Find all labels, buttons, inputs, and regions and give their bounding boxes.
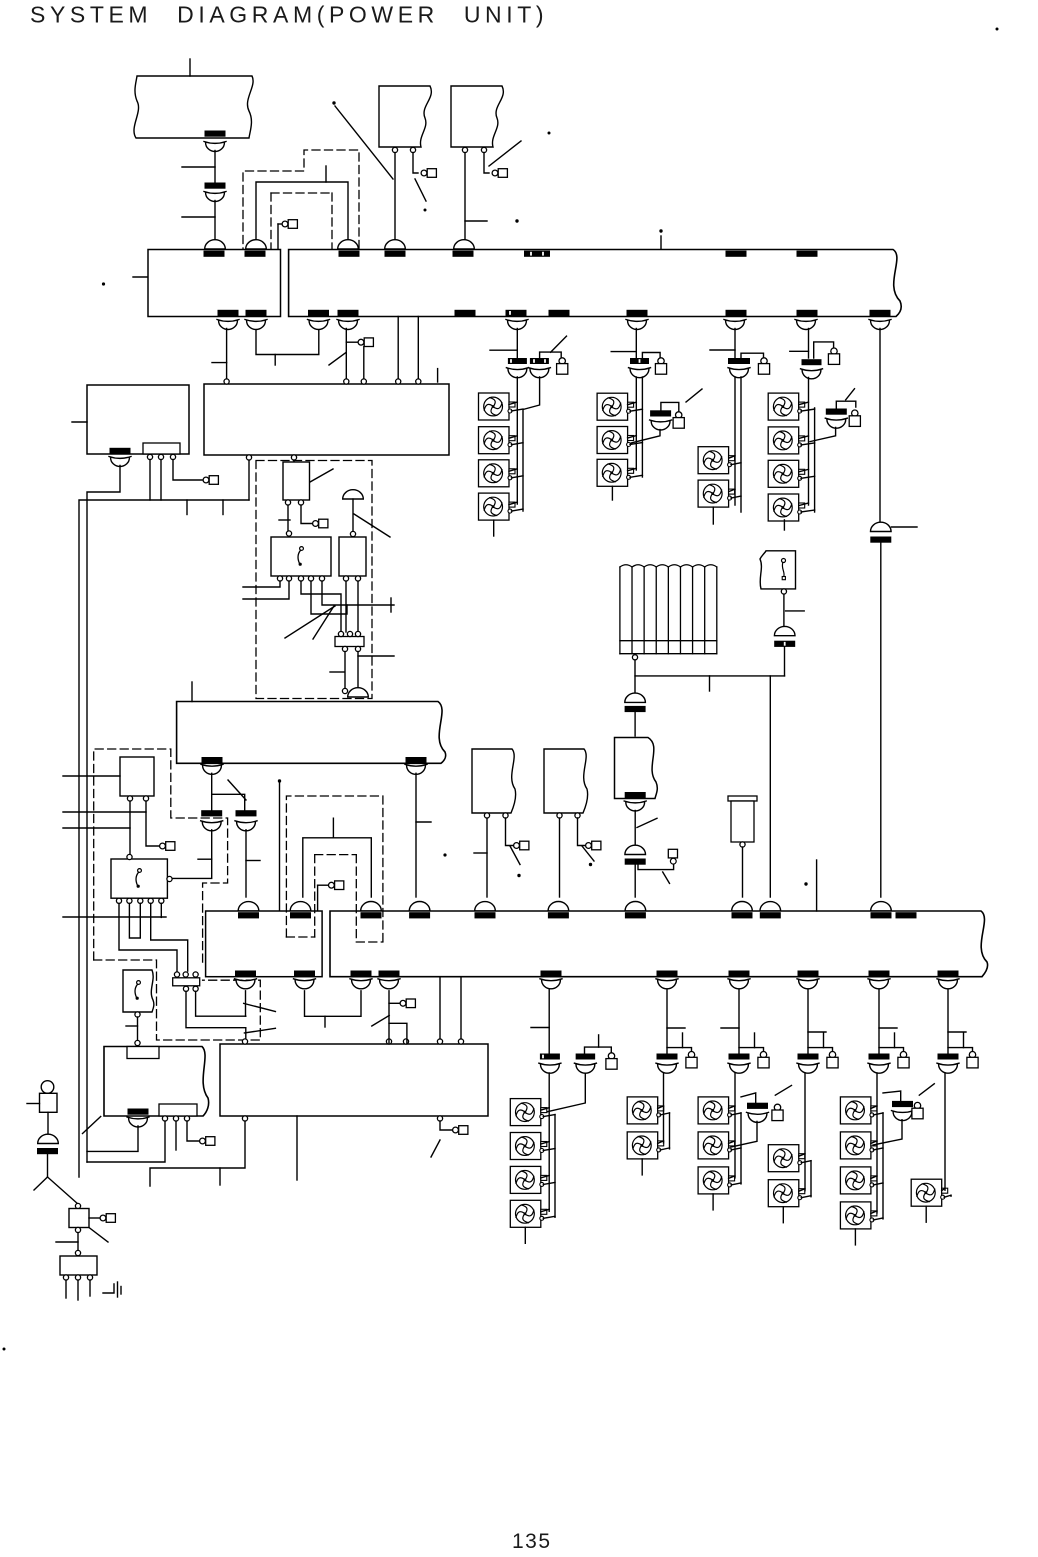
fan bus wire: [882, 1113, 884, 1219]
leader line: [329, 353, 346, 366]
fan lead: [873, 1148, 883, 1150]
connector CN144 bar: [236, 810, 257, 816]
connector plug: [748, 1114, 767, 1123]
fan motor: [840, 1202, 877, 1229]
stub: [709, 676, 711, 691]
terminal block: [159, 1104, 197, 1116]
wire branch: [389, 1002, 400, 1004]
connector CN235 plug: [870, 980, 889, 989]
wire: [516, 329, 518, 359]
wire: [635, 660, 785, 676]
pin: [298, 576, 303, 581]
fan motor: [597, 427, 634, 454]
fan motor: [768, 427, 805, 454]
fan lead: [801, 1196, 811, 1198]
pin: [342, 646, 347, 651]
connector CN401 bar: [625, 706, 646, 712]
wire: [301, 581, 341, 632]
wire stub above T901: [189, 59, 191, 76]
speck: [517, 874, 520, 877]
wire branch: [883, 1091, 901, 1101]
pin: [410, 147, 415, 152]
fan bus wire: [808, 378, 810, 506]
connector CN236 bar: [938, 971, 959, 977]
connector CN151 bar: [128, 1109, 149, 1115]
wire: [742, 847, 744, 897]
fan motor: [768, 460, 805, 487]
wire: [635, 329, 637, 359]
connector CN102 bar: [245, 251, 266, 257]
pin: [75, 1275, 80, 1280]
wire: [506, 818, 514, 846]
pin: [75, 1227, 80, 1232]
wire: [439, 977, 441, 1039]
connector CN202 socket: [290, 902, 311, 911]
leader line: [431, 1140, 440, 1157]
fan lead: [871, 1211, 877, 1214]
leader line: [335, 106, 393, 179]
relay RY902: [339, 537, 366, 576]
stub: [332, 818, 334, 838]
connector CN222 plug: [295, 980, 314, 989]
connector CN206 bar: [548, 912, 569, 918]
wire: [389, 1023, 407, 1043]
connector CN231 plug: [542, 980, 561, 989]
system control board: [204, 384, 449, 455]
connector CN305 plug: [802, 370, 821, 379]
fan motor: [479, 393, 516, 420]
connector CN112 bar: [246, 310, 267, 316]
wire: [634, 676, 636, 693]
wire stub: [325, 166, 327, 182]
fan lead: [799, 469, 809, 472]
video power board: [220, 1044, 488, 1116]
fan lead: [799, 436, 809, 439]
connector CN205 socket: [475, 902, 496, 911]
wire branch: [661, 402, 679, 411]
connector CN111 plug: [219, 321, 238, 330]
wire: [129, 801, 131, 857]
plug P911: [668, 849, 677, 858]
wire: [546, 1074, 585, 1112]
fan lead: [541, 1108, 549, 1111]
fan bus wire: [944, 1073, 946, 1190]
fan bus wire: [635, 377, 637, 470]
fuse holder: [774, 1104, 780, 1110]
speck: [278, 779, 281, 782]
connector bar: [938, 1054, 959, 1060]
connector CN236 plug: [939, 980, 958, 989]
degauss coil (torn edge): [615, 738, 658, 799]
connector CN906 socket: [385, 240, 406, 249]
pin: [224, 379, 229, 384]
leader line: [510, 846, 520, 865]
connector CN234 bar: [798, 971, 819, 977]
fan bus wire: [734, 377, 736, 505]
fan lead: [801, 510, 815, 512]
wire: [279, 781, 281, 910]
fuse holder: [914, 1102, 920, 1108]
connector bar: [892, 1101, 913, 1107]
fan motor: [911, 1179, 948, 1206]
plug P909: [453, 1127, 459, 1133]
connector CN304 plug: [730, 369, 749, 378]
connector CN142 plug: [407, 766, 426, 775]
connector CN501 bar: [540, 1054, 560, 1060]
wire tick: [198, 858, 212, 860]
speck: [424, 209, 427, 212]
wire: [119, 903, 177, 971]
connector CN208 socket: [732, 901, 753, 910]
speck: [443, 853, 446, 856]
pin: [347, 631, 352, 636]
wire: [212, 773, 245, 810]
fan bus wire: [663, 1073, 665, 1143]
fan lead: [729, 489, 735, 492]
stub: [963, 1033, 965, 1048]
pin: [392, 147, 397, 152]
wire: [150, 1121, 245, 1186]
connector CN223 bar: [351, 971, 372, 977]
plug P912: [514, 843, 520, 849]
wire: [394, 153, 396, 240]
fan lead: [871, 1141, 877, 1144]
fan motor: [510, 1133, 547, 1160]
leader line: [582, 846, 594, 861]
fan bus wire: [740, 377, 742, 512]
fan lead: [799, 503, 809, 506]
wire: [214, 151, 216, 183]
wire: [129, 903, 140, 938]
fan lead: [541, 1175, 549, 1178]
connector CN121 plug: [871, 321, 890, 330]
fan lead: [660, 1148, 669, 1150]
connector CN121 bar: [870, 310, 891, 316]
stub: [682, 1033, 684, 1048]
pin: [75, 1250, 80, 1255]
fuse holder F301: [559, 358, 565, 364]
stub: [437, 369, 439, 382]
wire: [245, 991, 247, 1016]
wire: [464, 153, 466, 240]
connector CN904 socket: [246, 240, 267, 249]
connector bar: [869, 1054, 890, 1060]
fan lead: [801, 409, 815, 411]
fuse holder F303: [761, 358, 767, 364]
wire tick: [182, 216, 215, 218]
connector bar: [657, 1054, 678, 1060]
fuse holder F501: [608, 1053, 614, 1059]
wire: [634, 811, 636, 846]
pin: [242, 1116, 247, 1121]
connector CN151 plug: [129, 1118, 148, 1127]
fan lead: [801, 1161, 811, 1163]
stub: [524, 1227, 526, 1243]
plug P901: [278, 223, 282, 225]
leader line: [415, 179, 426, 201]
fan bus wire: [548, 1073, 550, 1211]
connector CN601 socket: [38, 1134, 59, 1143]
heat sink / ballast resistor array: [620, 565, 717, 654]
fan bus wire: [734, 1073, 736, 1178]
fan motor: [510, 1099, 547, 1126]
wire tick: [212, 362, 227, 364]
pin: [127, 854, 132, 859]
wire: [34, 1177, 48, 1190]
connector plug: [651, 421, 670, 430]
fuse holder: [760, 1052, 766, 1058]
fan motor: [479, 493, 516, 520]
pin: [386, 1039, 391, 1044]
connector CN301 plug: [508, 369, 527, 378]
connector plug: [658, 1064, 677, 1073]
fan lead: [731, 1113, 741, 1115]
leader line: [310, 469, 333, 482]
fan motor: [597, 459, 634, 486]
wire: [149, 460, 151, 501]
fan motor: [479, 460, 516, 487]
pin: [462, 147, 467, 152]
fan lead: [729, 1176, 735, 1179]
connector CN310 socket: [871, 522, 892, 531]
power unit board PS-1 (main section, torn edge): [289, 250, 902, 317]
connector CN233 bar: [729, 971, 750, 977]
leader line: [489, 141, 521, 166]
connector CN210 bar: [871, 912, 892, 918]
stub: [493, 520, 495, 536]
wire: [175, 1121, 177, 1150]
audio power board (torn edge): [104, 1047, 209, 1117]
speck: [996, 28, 999, 31]
cable F (off-page): [544, 749, 588, 813]
pin: [286, 531, 291, 536]
connector CN223 plug: [352, 980, 371, 989]
wire tick: [808, 1031, 826, 1033]
wire: [363, 347, 365, 381]
pin: [458, 1039, 463, 1044]
fan motor: [840, 1132, 877, 1159]
connector CN901 bar: [205, 131, 226, 137]
wire: [87, 1121, 165, 1162]
pin: [246, 455, 251, 460]
wire: [357, 581, 359, 632]
fan motor: [627, 1097, 664, 1124]
connector CN107 bar: [726, 251, 747, 257]
fan lead: [630, 443, 642, 445]
pin: [167, 876, 172, 881]
sub power board: [87, 385, 189, 454]
wire: [666, 990, 668, 1054]
connector CN119 bar: [726, 310, 747, 316]
wire: [173, 460, 202, 481]
fuse holder: [676, 412, 682, 418]
pin: [183, 972, 188, 977]
plug P902: [421, 170, 427, 176]
pin: [143, 796, 148, 801]
fan lead: [509, 502, 517, 505]
connector bar: [798, 1054, 819, 1060]
connector CN112 plug: [247, 321, 266, 330]
connector CN206 socket: [548, 902, 569, 911]
wire: [631, 430, 660, 443]
connector CN119 plug: [726, 321, 745, 330]
fan lead: [873, 1113, 883, 1115]
wire branch: [836, 401, 856, 408]
fuse holder F302: [658, 358, 664, 364]
fan motor: [627, 1132, 664, 1159]
wire: [160, 903, 162, 917]
connector CN209 bar: [760, 912, 781, 918]
connector CN303 plug: [630, 369, 649, 378]
leader line: [354, 514, 390, 537]
connector CN902 bar: [205, 183, 226, 189]
connector CN404 bar: [625, 859, 646, 865]
connector CN101 bar: [204, 251, 225, 257]
wire branch: [814, 342, 834, 358]
speck: [589, 863, 592, 866]
connector CN115 bar: [455, 310, 476, 316]
fan lead: [512, 443, 524, 445]
connector plug: [799, 1064, 818, 1073]
connector CN113 plug: [309, 321, 328, 330]
wire tick: [721, 1027, 739, 1029]
wire: [634, 712, 636, 736]
wire: [87, 466, 120, 1163]
wire branch: [642, 353, 660, 359]
thermal switch S902 (torn edge): [123, 970, 154, 1012]
wire: [226, 329, 228, 382]
leader line: [846, 389, 855, 400]
fan motor: [698, 1097, 735, 1124]
leader line: [663, 872, 670, 883]
connector CN120 bar: [797, 310, 818, 316]
wire: [440, 1121, 452, 1130]
pin: [416, 379, 421, 384]
fan motor: [768, 1180, 805, 1207]
connector CN103 bar: [339, 251, 360, 257]
connector CN117 bar: [549, 310, 570, 316]
fan lead: [729, 1141, 735, 1144]
fan lead: [630, 409, 642, 411]
fan lead: [729, 456, 735, 459]
connector CN235 bar: [869, 971, 890, 977]
connector CN301 bar: [508, 358, 527, 364]
connector CN108 bar: [797, 251, 818, 257]
fan lead: [628, 468, 637, 471]
wire: [388, 991, 390, 1043]
wire tick: [330, 671, 344, 673]
connector CN111 bar: [218, 310, 239, 316]
wire: [638, 864, 674, 869]
plug P907: [160, 843, 166, 849]
fan lead: [512, 476, 524, 478]
pin row under switch: [116, 898, 121, 903]
wire tick: [948, 1031, 966, 1033]
wire tick: [710, 349, 735, 351]
wire: [578, 818, 586, 846]
connector CN501 plug: [541, 1064, 560, 1073]
fuse holder: [969, 1052, 975, 1058]
wire: [634, 865, 636, 897]
connector CN104 bar: [385, 251, 406, 257]
wire: [397, 317, 399, 381]
connector plug: [827, 419, 846, 428]
wire: [559, 818, 561, 897]
fan lead: [873, 1218, 883, 1220]
terminal block: [173, 978, 200, 986]
power unit board PS-1 (left section): [148, 250, 281, 317]
wire tick: [182, 166, 215, 168]
stub: [611, 486, 613, 500]
posistor: [728, 796, 757, 801]
AC input block: [120, 757, 154, 796]
wire: [873, 1120, 902, 1145]
fan bus wire: [669, 1113, 671, 1149]
plug P913: [586, 843, 592, 849]
connector CN403 bar: [625, 792, 646, 798]
wire: [344, 652, 346, 689]
connector CN302 plug: [530, 369, 549, 378]
wire: [245, 830, 247, 897]
pin: [575, 813, 580, 818]
wire tick: [56, 1241, 78, 1243]
wire branch: [808, 1048, 833, 1051]
plug P908: [200, 1138, 206, 1144]
wire: [807, 990, 809, 1054]
fan lead: [942, 1188, 945, 1191]
pin: [484, 813, 489, 818]
stub: [823, 1033, 825, 1048]
fan lead: [658, 1141, 664, 1144]
switch contacts: [782, 559, 786, 563]
wire: [211, 794, 213, 810]
wire: [146, 801, 159, 846]
plug P903: [492, 170, 498, 176]
fan bus wire: [740, 1113, 742, 1184]
pin: [63, 1275, 68, 1280]
wire branch: [879, 1048, 904, 1051]
connector CN210 socket: [871, 902, 892, 911]
wire: [816, 860, 818, 911]
fan lead: [731, 496, 741, 498]
leader line: [89, 1228, 108, 1243]
pin: [503, 813, 508, 818]
main distribution wire: [79, 500, 249, 1177]
stub: [186, 500, 188, 515]
fan lead: [944, 1195, 951, 1197]
wire loop between CN904/CN905: [256, 182, 348, 249]
fan motor: [510, 1200, 547, 1227]
fan lead: [799, 1154, 805, 1157]
wire: [248, 460, 250, 500]
wire entry: [63, 775, 120, 777]
wire: [47, 1154, 49, 1177]
pin: [127, 796, 132, 801]
wire: [345, 329, 347, 381]
fan lead: [543, 1115, 555, 1117]
pin: [135, 1040, 140, 1045]
fan lead: [799, 1189, 805, 1192]
plug P914: [100, 1215, 106, 1221]
wire: [352, 499, 354, 532]
fan lead: [628, 402, 637, 405]
stub: [894, 1033, 896, 1048]
leader line: [244, 1003, 276, 1011]
connector CN211 bar: [896, 912, 917, 918]
connector CN116 bar: [506, 310, 527, 316]
connector CN201 socket: [238, 902, 259, 911]
wire: [783, 594, 785, 627]
